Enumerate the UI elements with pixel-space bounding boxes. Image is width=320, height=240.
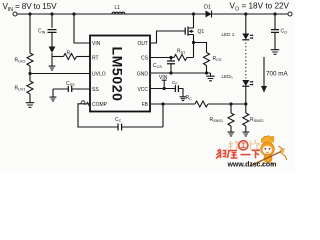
watermark text weikuyixia <box>216 149 260 159</box>
node rail-Q1drain <box>192 12 195 15</box>
resistor RC <box>195 101 208 107</box>
node rail-Cin <box>50 12 53 15</box>
svg-text:L1: L1 <box>115 5 121 11</box>
resistor RSNS1 <box>230 104 232 113</box>
node rail-VINpin <box>72 12 75 15</box>
node rail-Co <box>273 12 276 15</box>
wire Cin branch <box>51 14 53 28</box>
node Rcs-gnd <box>205 71 208 74</box>
watermark mascot <box>251 136 287 166</box>
resistor RS1 <box>174 55 187 61</box>
wire RT <box>52 56 64 58</box>
output terminal Vo <box>288 12 292 16</box>
capacitor CC <box>118 124 122 131</box>
wire VCC row <box>150 88 175 90</box>
svg-text:UVLO: UVLO <box>92 71 106 77</box>
capacitor CF <box>175 85 178 92</box>
svg-text:CS: CS <box>141 56 149 62</box>
svg-text:GND: GND <box>137 71 149 77</box>
node FB-Rsns1 <box>229 102 232 105</box>
ground arrow below CIN <box>49 47 56 54</box>
svg-text:VIN: VIN <box>92 41 101 47</box>
LED 1 <box>242 34 253 40</box>
ground below CO <box>271 47 279 55</box>
ground left of CSS <box>52 89 54 95</box>
wire LED string top <box>245 14 247 34</box>
capacitor CCS <box>170 58 172 61</box>
svg-text:FB: FB <box>142 102 149 108</box>
watermark faint char pian <box>251 140 260 151</box>
resistor RSNS2 <box>245 104 247 113</box>
transistor Q1 <box>185 14 193 43</box>
node rail-Ruv2 <box>28 12 31 15</box>
LED n <box>242 80 253 86</box>
node FB-Rsns2 <box>244 102 247 105</box>
capacitor CO <box>274 14 276 29</box>
op IC U1 LM5020 <box>90 36 150 112</box>
wire OUT to gate <box>150 31 185 43</box>
watermark seal <box>239 141 248 150</box>
svg-text:VCC: VCC <box>137 87 148 93</box>
svg-text:RT: RT <box>92 56 99 62</box>
svg-text:700 mA: 700 mA <box>266 70 289 77</box>
resistor RUV1 <box>29 74 31 82</box>
ground below CF <box>180 94 187 100</box>
wire VIN pin <box>74 14 90 43</box>
ground small below RT wire <box>49 64 56 70</box>
resistor RCS <box>204 53 210 66</box>
wire GND rail <box>150 72 211 74</box>
resistor RT <box>64 54 77 60</box>
svg-text:OUT: OUT <box>137 41 148 47</box>
capacitor CIN <box>48 30 57 33</box>
svg-text:D1: D1 <box>204 5 211 11</box>
node Q1 source <box>192 41 195 44</box>
squiggle artifact near COMP <box>81 101 91 108</box>
svg-text:SS: SS <box>92 87 99 93</box>
wire UVLO <box>30 73 90 75</box>
current arrow 700 mA <box>263 57 265 87</box>
wire top rail <box>17 13 288 15</box>
svg-text:Q1: Q1 <box>198 29 205 35</box>
wire Ruv divider <box>29 14 31 53</box>
svg-text:COMP: COMP <box>92 102 108 108</box>
wire FB row <box>150 103 195 105</box>
node rail-LED <box>244 12 247 15</box>
node CS-Ccs <box>169 56 172 59</box>
node FB-Cc <box>161 102 164 105</box>
capacitor CSS <box>53 88 90 90</box>
wire LED dots <box>245 43 247 79</box>
ground below RSNS1 <box>228 130 235 136</box>
svg-text:LEDn: LEDn <box>222 74 233 80</box>
input terminal VIN <box>13 12 17 16</box>
ground below RSNS2 <box>242 130 249 136</box>
ground below RUV1 <box>26 100 34 108</box>
watermark faint char zhao <box>229 141 240 150</box>
ground GND rail <box>206 73 214 81</box>
wire CS row <box>150 57 174 59</box>
node UVLO junction <box>28 72 31 75</box>
wire COMP compensation <box>78 104 118 127</box>
resistor RUV2 <box>27 53 33 66</box>
svg-text:LED 1: LED 1 <box>222 32 235 37</box>
svg-text:LM5020: LM5020 <box>110 47 126 102</box>
inductor L1 <box>112 12 125 14</box>
wire to RCS <box>194 43 207 53</box>
svg-text:www.dzsc.com: www.dzsc.com <box>227 161 277 168</box>
wire LED bottom <box>245 86 247 104</box>
node Ccs-gnd <box>169 71 172 74</box>
diode D1 <box>206 11 212 18</box>
svg-text:VIN: VIN <box>159 75 168 81</box>
net stub VIN <box>162 80 167 88</box>
